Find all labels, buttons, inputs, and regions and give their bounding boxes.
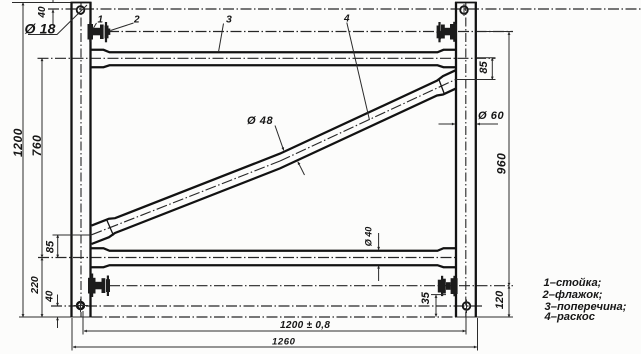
dimension 1260 (bottom) xyxy=(72,318,478,351)
svg-text:1–стойка;: 1–стойка; xyxy=(544,277,602,289)
center line through bottom holes xyxy=(51,305,483,307)
label Ø60 with arrows (post diameter) xyxy=(439,110,505,124)
post bottom line xyxy=(19,316,92,318)
svg-text:2–флажок;: 2–флажок; xyxy=(542,289,603,301)
svg-text:85: 85 xyxy=(478,61,490,74)
dimension 85 (right) xyxy=(456,58,496,80)
hole bottom-right xyxy=(463,300,471,314)
dimension 960 (right) xyxy=(477,32,514,286)
legend xyxy=(542,277,627,323)
flag (флажок) bottom-left xyxy=(88,274,110,298)
center line through bottom flags xyxy=(109,285,513,287)
dimension 120 (right) xyxy=(508,286,510,318)
svg-text:760: 760 xyxy=(30,135,44,157)
hole bottom-left xyxy=(74,299,89,312)
flag (флажок) top-left xyxy=(88,22,111,43)
label Ø18 with leader xyxy=(25,5,88,37)
label Ø48 with arrows xyxy=(247,115,305,175)
svg-text:960: 960 xyxy=(494,153,508,175)
svg-text:1200 ± 0,8: 1200 ± 0,8 xyxy=(280,320,330,331)
dimension 35 (right) xyxy=(431,295,446,317)
top crossbar (поперечина) xyxy=(92,50,456,67)
flag (флажок) bottom-right xyxy=(438,276,458,297)
dimension 760 (left) xyxy=(41,58,43,257)
svg-text:Ø 60: Ø 60 xyxy=(478,110,505,122)
left post U1 (стойка) xyxy=(71,2,92,317)
bottom crossbar center line xyxy=(38,257,458,259)
top crossbar center line xyxy=(38,57,496,59)
hole Ø18 top-left xyxy=(77,6,85,14)
svg-text:40: 40 xyxy=(37,6,48,19)
svg-text:120: 120 xyxy=(494,290,506,309)
svg-text:1: 1 xyxy=(98,15,104,26)
svg-text:40: 40 xyxy=(44,290,55,303)
dimension 85 (left) xyxy=(53,235,92,258)
post top extension line xyxy=(12,2,92,4)
hole top-right xyxy=(460,4,468,16)
label Ø40 with arrows (bottom rail diameter) xyxy=(363,227,378,281)
dimension 40 (bottom-left) xyxy=(57,295,59,329)
dimension 40 (top-left) xyxy=(52,0,54,25)
svg-text:85: 85 xyxy=(44,240,56,253)
center line through top holes xyxy=(48,8,641,10)
dimension 1200±0,8 (bottom) xyxy=(83,311,466,335)
svg-text:2: 2 xyxy=(133,15,140,26)
svg-text:Ø 40: Ø 40 xyxy=(363,227,373,247)
diagonal brace (раскос) xyxy=(92,70,456,244)
svg-text:35: 35 xyxy=(420,291,432,304)
center line through top flags xyxy=(108,31,513,33)
right post (стойка) xyxy=(455,2,477,317)
svg-text:220: 220 xyxy=(29,276,41,295)
svg-text:1200: 1200 xyxy=(11,128,25,157)
bottom crossbar (поперечина) xyxy=(92,248,456,267)
svg-text:3: 3 xyxy=(226,14,232,26)
flag (флажок) top-right xyxy=(436,22,457,43)
svg-text:4–раскос: 4–раскос xyxy=(544,311,596,323)
dimension 220 (left) xyxy=(41,258,43,318)
dimension 1200 (left) xyxy=(22,3,24,318)
svg-text:1260: 1260 xyxy=(272,337,296,348)
svg-text:Ø 48: Ø 48 xyxy=(247,115,274,127)
